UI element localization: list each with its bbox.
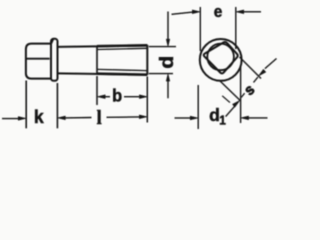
svg-text:b: b [112,86,122,105]
svg-text:k: k [34,107,44,127]
svg-text:l: l [97,107,102,129]
svg-text:d: d [209,105,220,125]
svg-text:e: e [214,4,223,21]
svg-text:1: 1 [219,113,226,127]
svg-text:d: d [157,56,178,69]
